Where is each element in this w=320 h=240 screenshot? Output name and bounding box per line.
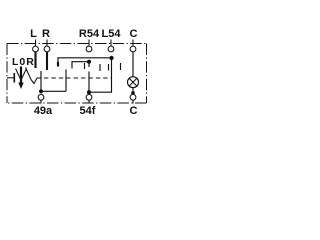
contact tick a bbox=[99, 64, 101, 71]
wire top rail from blade corner to L54 bbox=[58, 58, 112, 66]
enclosure top edge bbox=[7, 43, 147, 45]
contact tick c bbox=[120, 63, 122, 70]
contact blade foot bbox=[57, 62, 59, 67]
terminal circle 49a bbox=[38, 94, 44, 100]
junction dot 49a bbox=[39, 89, 43, 93]
lamp lower wire bbox=[132, 88, 134, 95]
wire rail 49a to arm bbox=[41, 90, 66, 92]
wire 49a riser bbox=[40, 71, 42, 92]
contact blade mid bbox=[84, 63, 86, 69]
svg-text:L0R: L0R bbox=[12, 56, 35, 68]
svg-text:C: C bbox=[130, 28, 138, 40]
terminal circle R bbox=[44, 46, 50, 52]
terminal circle L bbox=[33, 46, 39, 52]
moving arm riser bbox=[65, 70, 67, 92]
wire L54 drop bbox=[89, 58, 112, 92]
lever diagonal to spring bbox=[26, 68, 32, 80]
svg-text:L54: L54 bbox=[102, 28, 122, 40]
terminal pin C bottom bbox=[132, 100, 134, 103]
lamp cross stroke 2 bbox=[129, 79, 136, 86]
svg-text:C: C bbox=[130, 105, 138, 117]
lamp feed wire bbox=[132, 52, 134, 77]
contact tick b bbox=[108, 64, 110, 71]
junction dot C bottom bbox=[131, 91, 135, 95]
contact upper 54f bbox=[88, 62, 90, 67]
connector socket wire left bbox=[7, 77, 14, 79]
contact blade R bbox=[46, 52, 48, 70]
lever right wing bbox=[22, 69, 27, 80]
lever arrow shaft bbox=[20, 67, 22, 85]
terminal pin 49a bbox=[40, 100, 42, 103]
junction dot R54 bbox=[87, 60, 91, 64]
terminal circle C top bbox=[130, 46, 136, 52]
contact blade L bbox=[34, 52, 36, 68]
indicator lamp C bbox=[128, 77, 139, 88]
junction dot L54 bbox=[109, 56, 113, 60]
junction dot 54f bbox=[87, 90, 91, 94]
terminal pin L bbox=[35, 40, 37, 47]
connector socket bar bbox=[13, 73, 15, 83]
contact lower 54f riser bbox=[88, 72, 90, 93]
spring v notch bbox=[31, 78, 37, 84]
terminal circle C bottom bbox=[130, 94, 136, 100]
mechanical dashed link bbox=[44, 77, 112, 79]
terminal pin R54 bbox=[88, 40, 90, 47]
wire R54 rail bbox=[72, 62, 89, 69]
lever left wing bbox=[16, 69, 21, 80]
enclosure right edge bbox=[146, 44, 148, 104]
svg-text:R: R bbox=[42, 28, 50, 40]
svg-text:L: L bbox=[30, 28, 37, 40]
enclosure bottom edge bbox=[7, 102, 147, 104]
svg-text:R54: R54 bbox=[79, 28, 100, 40]
lamp cross stroke 1 bbox=[129, 79, 136, 86]
terminal pin 54f bbox=[88, 100, 90, 103]
terminal circle R54 bbox=[86, 46, 92, 52]
terminal circle L54 bbox=[108, 46, 114, 52]
terminal pin C top bbox=[132, 40, 134, 47]
terminal pin R bbox=[46, 40, 48, 47]
terminal pin L54 bbox=[110, 40, 112, 47]
svg-text:54f: 54f bbox=[80, 105, 96, 117]
lever arrowhead bbox=[18, 83, 23, 90]
enclosure left edge bbox=[6, 44, 8, 104]
lever output wire bbox=[37, 77, 42, 79]
svg-text:49a: 49a bbox=[34, 105, 53, 117]
terminal circle 54f bbox=[86, 94, 92, 100]
